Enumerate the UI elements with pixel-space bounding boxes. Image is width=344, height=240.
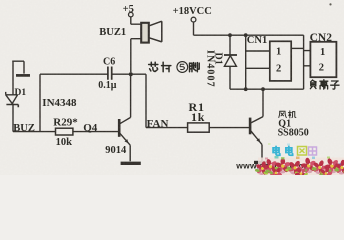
touch electrode plate — [12, 61, 30, 94]
wire CN1 right stub — [291, 47, 303, 49]
connector CN1 box — [270, 41, 291, 81]
buzzer BUZ1 body — [141, 23, 149, 43]
wire CN2 stubs — [304, 51, 311, 66]
Q1 emitter arrow — [256, 138, 260, 142]
resistor R29 body — [56, 128, 73, 135]
ground Q1 — [254, 161, 269, 164]
node dot diode top — [228, 33, 232, 37]
wire FAN row — [146, 127, 249, 129]
transistor Q4 collector — [120, 74, 131, 124]
Q4 emitter arrow — [125, 139, 129, 143]
wire bottom rail — [230, 88, 304, 90]
watermark flower band backdrop — [258, 158, 344, 176]
wire CN1 pin stubs — [246, 51, 270, 68]
paper noise overlay — [0, 0, 344, 175]
wire corner down to FAN — [145, 74, 147, 127]
watermark yellow-green glyph — [298, 147, 307, 156]
transistor Q1 collector — [251, 117, 263, 123]
node dot CN1 bottom — [244, 87, 248, 91]
+18VCC terminal — [191, 17, 196, 22]
wire CN1 left vertical — [245, 35, 247, 89]
ground Q4 — [121, 162, 141, 165]
watermark far right blue glyph — [340, 164, 343, 171]
transistor Q4 emitter — [120, 133, 130, 161]
buzzer BUZ1 horn — [149, 21, 162, 42]
label 负离子 (negative ion) — [310, 80, 339, 89]
label 芯片⑤脚 (chip pin 5) — [149, 62, 200, 73]
transistor Q1 base bar — [249, 118, 252, 135]
resistor R1 body — [188, 123, 210, 132]
node junction dot at C6/buzzer/Q4 — [129, 72, 133, 76]
watermark 电电 cyan — [273, 146, 293, 155]
capacitor C6 plates — [108, 67, 112, 80]
zener diode D1 IN4348 — [6, 92, 19, 132]
watermark speckles — [265, 143, 330, 160]
scan speck top right — [329, 3, 331, 5]
wire C6 row — [40, 73, 146, 75]
transistor Q4 base bar — [118, 119, 121, 137]
watermark flower band — [254, 155, 344, 182]
+5 terminal — [129, 12, 134, 17]
diode D1 IN4007 — [224, 35, 237, 89]
node dot CN1 top — [244, 33, 248, 37]
wire riser to C6 — [39, 74, 41, 131]
wire BUZ net bottom — [13, 131, 118, 133]
label 风机 (fan) — [279, 111, 296, 118]
wire buzzer stubs — [131, 17, 141, 72]
wire +18V top rail — [194, 22, 304, 35]
node dot Q1 branch — [261, 87, 265, 91]
wire mid vertical between CN1/CN2 — [303, 35, 305, 89]
watermark lavender glyph — [309, 147, 317, 155]
transistor Q1 emitter — [251, 131, 262, 161]
wire down to Q1 collector — [262, 89, 264, 116]
connector CN2 box — [310, 42, 336, 77]
